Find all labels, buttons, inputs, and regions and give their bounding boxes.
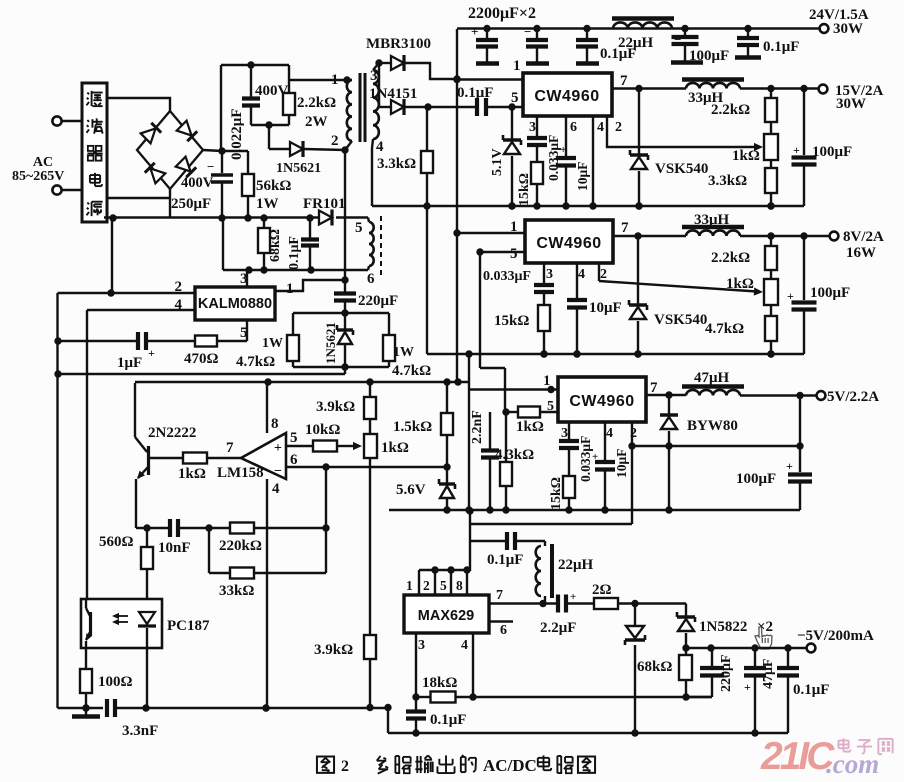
svg-text:5: 5 (440, 578, 447, 593)
svg-text:1W: 1W (256, 196, 279, 212)
-5V output rail (686, 647, 807, 649)
svg-text:10μF: 10μF (614, 449, 629, 478)
wire CW3 pin1 (469, 388, 558, 390)
svg-text:MAX629: MAX629 (418, 608, 474, 624)
svg-text:3.3kΩ: 3.3kΩ (377, 156, 416, 172)
AC input terminal 2 (52, 185, 61, 194)
svg-text:8: 8 (271, 416, 279, 432)
svg-text:2.2kΩ: 2.2kΩ (711, 250, 750, 266)
capacitor 0.1uF MAX filter (470, 540, 507, 542)
svg-text:4.3kΩ: 4.3kΩ (495, 447, 534, 463)
bridge diode D1 (141, 123, 162, 144)
svg-text:MBR3100: MBR3100 (366, 36, 431, 52)
primary negative rail (104, 216, 319, 218)
cursor icon (755, 627, 772, 649)
wire CW2 pin1 (457, 232, 525, 234)
svg-text:22μH: 22μH (558, 557, 594, 573)
wire rail to KALM pin2 node (111, 218, 113, 293)
bottom ground rail with 3.3nF (58, 707, 104, 709)
bridge diode D3 (145, 163, 166, 184)
svg-text:2.2kΩ: 2.2kΩ (711, 102, 750, 118)
svg-text:3.9kΩ: 3.9kΩ (314, 642, 353, 658)
capacitor 2200uF B (533, 25, 540, 32)
svg-text:0.1μF: 0.1μF (430, 712, 466, 728)
svg-text:2.2nF: 2.2nF (470, 410, 485, 444)
svg-text:21IC: 21IC (760, 735, 835, 778)
capacitor 0.1uF aux (309, 218, 311, 238)
svg-text:CW4960: CW4960 (536, 235, 601, 252)
wire pin6 to comp (325, 467, 327, 528)
wire MAX pin6 (489, 620, 513, 622)
resistor 100 (85, 648, 87, 669)
diode 1N5621 (269, 148, 290, 150)
svg-text:560Ω: 560Ω (99, 534, 134, 550)
capacitor 1uF (146, 340, 195, 342)
svg-text:0.1μF: 0.1μF (287, 236, 302, 270)
wire CW2 pin5 comp (480, 251, 525, 253)
svg-text:100μF: 100μF (812, 144, 852, 160)
svg-text:0.1μF: 0.1μF (793, 682, 829, 698)
wire bridge to main cap node (203, 150, 222, 151)
svg-text:0.022μF: 0.022μF (229, 109, 245, 160)
wire CW1 pin1 (457, 78, 523, 80)
wire compensation net (136, 527, 170, 529)
zener 5.6V (446, 467, 448, 484)
svg-text:+: + (471, 24, 478, 39)
svg-text:CW4960: CW4960 (534, 88, 599, 105)
svg-text:5: 5 (290, 430, 298, 446)
svg-text:KALM0880: KALM0880 (198, 296, 272, 312)
svg-text:6: 6 (570, 120, 577, 135)
svg-text:LM158: LM158 (217, 465, 264, 481)
svg-text:8: 8 (456, 578, 463, 593)
pot 1k 15V (764, 134, 778, 160)
wire pin2 column (344, 150, 346, 218)
svg-text:4: 4 (597, 120, 604, 135)
lower ground rail (387, 708, 389, 734)
capacitor 100uF 8V (803, 236, 805, 300)
svg-text:100μF: 100μF (689, 48, 729, 64)
diode VSK540 no.1 (638, 89, 640, 156)
svg-text:4.7kΩ: 4.7kΩ (236, 354, 275, 370)
svg-text:2Ω: 2Ω (592, 582, 612, 598)
svg-text:.com: .com (826, 749, 879, 779)
svg-text:2: 2 (341, 758, 349, 775)
svg-text:−: − (524, 24, 531, 39)
svg-text:4: 4 (461, 638, 468, 653)
8V section ground rail (426, 206, 428, 354)
svg-text:+: + (274, 441, 282, 456)
return wire y374 (58, 373, 346, 375)
transformer aux core dashed (380, 216, 382, 277)
svg-text:1N5621: 1N5621 (323, 322, 338, 364)
svg-text:7: 7 (496, 588, 503, 603)
svg-text:PC187: PC187 (167, 618, 210, 634)
wire 5V output (740, 394, 817, 396)
svg-text:22μH: 22μH (618, 35, 654, 51)
svg-text:47μH: 47μH (694, 370, 730, 386)
zener 5.1V (511, 107, 513, 140)
svg-text:100Ω: 100Ω (98, 674, 133, 690)
svg-text:1kΩ: 1kΩ (726, 276, 754, 292)
wire 15V output (740, 87, 818, 89)
capacitor 100uF 15V (803, 89, 805, 155)
svg-text:+: + (148, 346, 155, 360)
diode VSK540 no.2 (637, 236, 639, 305)
capacitor 47uF output (754, 648, 756, 666)
svg-text:1kΩ: 1kΩ (381, 440, 409, 456)
svg-text:2: 2 (615, 120, 622, 135)
24V output bus (457, 27, 820, 29)
svg-text:30W: 30W (833, 21, 863, 37)
vertical join 469 (468, 354, 470, 510)
svg-text:3.3nF: 3.3nF (122, 723, 158, 739)
svg-text:10kΩ: 10kΩ (305, 422, 340, 438)
svg-text:+: + (592, 451, 598, 463)
svg-text:2W: 2W (305, 114, 328, 130)
5V output terminal (817, 391, 826, 400)
-5V output terminal (807, 644, 816, 653)
resistor 15k CW3 (568, 449, 570, 476)
capacitor 100uF 24V (681, 25, 688, 32)
svg-text:6: 6 (500, 623, 507, 638)
svg-text:400V: 400V (181, 175, 214, 191)
capacitor 0.1uF top (583, 25, 590, 32)
svg-text:AC/DC: AC/DC (483, 756, 537, 775)
resistor 3.3k 15V (770, 160, 772, 168)
svg-text:3: 3 (561, 426, 568, 441)
svg-text:10nF: 10nF (158, 540, 191, 556)
wire 8V output (740, 235, 830, 237)
svg-text:470Ω: 470Ω (184, 351, 219, 367)
resistor 560 (146, 528, 148, 547)
main ground bus (372, 205, 804, 207)
IC CW4960 no.3 (558, 377, 646, 422)
wire filter to bridge top (107, 98, 170, 111)
capacitor 0.1uF output (787, 648, 789, 666)
resistor 3.9k upper (369, 382, 371, 397)
svg-text:0.033μF: 0.033μF (483, 269, 531, 284)
capacitor 2.2nF (489, 412, 491, 449)
resistor 15k CW2 (543, 293, 545, 305)
svg-text:2N2222: 2N2222 (148, 425, 196, 441)
svg-text:100μF: 100μF (810, 285, 850, 301)
svg-text:7: 7 (620, 73, 628, 89)
svg-text:33kΩ: 33kΩ (219, 583, 254, 599)
svg-text:1: 1 (406, 578, 413, 593)
svg-text:0.1μF: 0.1μF (487, 552, 523, 568)
inductor 22uH vertical (544, 541, 546, 546)
resistor 68k (263, 218, 265, 228)
snubber top rail (221, 64, 289, 66)
svg-text:4: 4 (578, 267, 585, 282)
resistor 10k (313, 441, 337, 452)
svg-text:0.1μF: 0.1μF (763, 39, 799, 55)
svg-text:+: + (793, 143, 800, 157)
svg-text:6: 6 (290, 452, 298, 468)
resistor 4.7k 8V (770, 305, 772, 316)
resistor 1k CW3 pin5 (506, 411, 518, 413)
capacitor 10nF (168, 519, 172, 537)
svg-text:1N5822: 1N5822 (699, 619, 747, 635)
svg-text:5.6V: 5.6V (396, 482, 426, 498)
svg-text:1: 1 (543, 373, 551, 389)
resistor 2 ohm (594, 598, 618, 609)
resistor 3.9k lower (369, 458, 371, 635)
svg-text:7: 7 (621, 220, 629, 236)
wire KALM pin5 / Vref (246, 320, 248, 341)
resistor 68k output (685, 648, 687, 655)
EMI filter box 滤波器电源 (82, 83, 107, 222)
bridge rectifier (137, 111, 203, 189)
svg-text:100μF: 100μF (736, 471, 776, 487)
svg-text:2.2μF: 2.2μF (540, 620, 576, 636)
wire snubber bottom (251, 124, 289, 126)
svg-text:1: 1 (331, 72, 339, 88)
resistor 220k (209, 527, 230, 529)
svg-text:2: 2 (331, 133, 339, 149)
svg-text:1: 1 (286, 281, 294, 297)
svg-text:1.5kΩ: 1.5kΩ (393, 419, 432, 435)
diode 1N5822 B (685, 604, 687, 618)
svg-text:8V/2A: 8V/2A (843, 229, 884, 245)
wire LED cathode down (146, 628, 148, 648)
svg-text:3.3kΩ: 3.3kΩ (708, 173, 747, 189)
svg-text:VSK540: VSK540 (655, 161, 708, 177)
resistor 1.5k (446, 382, 448, 413)
resistor 2.2k 2W (288, 65, 290, 93)
svg-text:220kΩ: 220kΩ (219, 538, 262, 554)
resistor 3.3k (426, 107, 428, 151)
aux block bottom rail (223, 269, 368, 271)
IC CW4960 no.1 (523, 73, 612, 116)
left vertical rail (56, 293, 58, 708)
zener 1N5621 shunt group (293, 312, 389, 314)
svg-text:FR101: FR101 (303, 196, 346, 212)
svg-text:47μF: 47μF (761, 659, 776, 690)
svg-text:3: 3 (546, 267, 553, 282)
svg-text:VSK540: VSK540 (654, 312, 707, 328)
svg-text:2: 2 (423, 578, 430, 593)
svg-text:0.033μF: 0.033μF (578, 436, 593, 482)
capacitor 0.1uF MAX gnd (415, 697, 417, 710)
svg-text:5.1V: 5.1V (490, 148, 505, 176)
inductor 33uH no.1 (682, 77, 744, 82)
svg-text:1: 1 (513, 58, 521, 74)
capacitor 2200uF A (483, 25, 490, 32)
5V section ground rail (389, 509, 800, 511)
bridge diode D4 (176, 157, 197, 178)
IC CW4960 no.2 (525, 220, 613, 263)
AC input terminal 1 (52, 116, 61, 125)
svg-text:68kΩ: 68kΩ (268, 229, 283, 262)
svg-text:−: − (207, 159, 214, 174)
diode BYW80 return (668, 446, 670, 510)
svg-text:1kΩ: 1kΩ (516, 419, 544, 435)
wire pin4 to ground bus (371, 148, 373, 206)
wire output sense y446 (632, 445, 800, 447)
svg-text:56kΩ: 56kΩ (256, 178, 291, 194)
svg-text:2: 2 (600, 267, 607, 282)
svg-text:4.7kΩ: 4.7kΩ (705, 321, 744, 337)
ground symbol (85, 708, 87, 715)
capacitor 0.022uF (247, 61, 254, 68)
svg-text:1kΩ: 1kΩ (178, 466, 206, 482)
svg-text:10μF: 10μF (589, 300, 622, 316)
svg-text:2200μF×2: 2200μF×2 (468, 5, 536, 22)
IC KALM0880 (246, 270, 248, 287)
svg-text:15kΩ: 15kΩ (517, 173, 532, 206)
svg-text:1μF: 1μF (117, 355, 142, 371)
svg-text:250μF: 250μF (171, 196, 211, 212)
svg-text:7: 7 (226, 440, 234, 456)
svg-text:1N5621: 1N5621 (276, 161, 321, 176)
8V output terminal (830, 232, 839, 241)
svg-text:85~265V: 85~265V (12, 169, 64, 184)
svg-text:BYW80: BYW80 (687, 418, 738, 434)
optocoupler arrows (114, 615, 128, 617)
transformer T1 core (359, 73, 362, 142)
svg-text:3: 3 (529, 120, 536, 135)
svg-text:+: + (570, 591, 576, 603)
IC MAX629 (404, 595, 489, 633)
diode BYW80 (668, 395, 670, 415)
svg-text:68kΩ: 68kΩ (637, 659, 672, 675)
svg-text:220μF: 220μF (719, 655, 734, 693)
15V output terminal (819, 85, 828, 94)
caption 图2 多路输出的AC/DC电路图 (317, 757, 334, 773)
wire pin1 feed (289, 79, 352, 81)
pot 1k LM158 (364, 434, 377, 458)
capacitor 100uF 5V (799, 446, 801, 472)
svg-text:3.9kΩ: 3.9kΩ (316, 399, 355, 415)
pot 1k 8V (764, 279, 778, 305)
svg-text:15kΩ: 15kΩ (494, 313, 529, 329)
capacitor 220uF (344, 280, 346, 292)
resistor 15k CW1 (536, 146, 538, 162)
svg-text:−: − (274, 464, 282, 479)
svg-text:5V/2.2A: 5V/2.2A (827, 389, 879, 405)
svg-text:3: 3 (418, 638, 425, 653)
wire filter to bridge bottom (107, 197, 170, 199)
diode 1N5822 A (634, 604, 636, 626)
svg-text:+: + (744, 680, 751, 694)
wire feedback to -5V (473, 696, 711, 698)
resistor 33k parallel (208, 528, 210, 573)
svg-text:30W: 30W (836, 96, 866, 112)
wire KALM pin4 to optocoupler (87, 309, 195, 311)
feedback rail y382 (135, 381, 469, 383)
svg-text:+: + (786, 459, 793, 473)
svg-text:+: + (560, 144, 566, 156)
svg-text:6: 6 (367, 271, 375, 287)
svg-text:AC: AC (33, 155, 53, 170)
wire KALM pin1 (275, 280, 345, 291)
svg-text:3: 3 (240, 271, 248, 287)
svg-text:220μF: 220μF (358, 293, 398, 309)
svg-text:7: 7 (650, 380, 658, 396)
svg-text:18kΩ: 18kΩ (422, 675, 457, 691)
wire ground drop 470 (469, 511, 471, 571)
svg-text:5: 5 (510, 246, 518, 262)
svg-text:1N4151: 1N4151 (369, 86, 417, 102)
op-amp LM158 (241, 433, 286, 479)
svg-text:10μF: 10μF (575, 162, 590, 191)
svg-text:15kΩ: 15kΩ (549, 477, 564, 510)
svg-text:5: 5 (355, 220, 363, 236)
resistor 4.3k (505, 412, 507, 462)
capacitor 220uF output (711, 648, 713, 666)
inductor 22uH (612, 16, 674, 21)
aux supply block left wire (222, 218, 224, 270)
resistor 2.2k 8V (770, 236, 772, 246)
svg-text:1W: 1W (393, 345, 414, 360)
resistor 2.2k 15V (770, 89, 772, 99)
svg-text:4.7kΩ: 4.7kΩ (392, 363, 431, 379)
wire CW2 pin7 (613, 235, 686, 237)
svg-text:4: 4 (272, 481, 280, 497)
capacitor 2.2uF (556, 595, 560, 613)
resistor 470 (195, 336, 217, 347)
resistor 56k 1W (247, 196, 249, 218)
svg-text:16W: 16W (846, 245, 876, 261)
wire KALM pin2 (111, 292, 195, 294)
Vin vertical feed (456, 29, 458, 382)
svg-text:4: 4 (606, 426, 613, 441)
bulk capacitor 400V 250uF (221, 151, 223, 173)
wire MAX top pins (419, 569, 470, 571)
wire node151 to 56k (222, 150, 248, 152)
resistor 1k base (150, 457, 183, 459)
24V output terminal (820, 24, 829, 33)
bridge diode D2 (177, 121, 198, 142)
wire CW1 pin7 (612, 87, 686, 89)
svg-text:−5V/200mA: −5V/200mA (797, 628, 874, 644)
svg-text:1kΩ: 1kΩ (732, 148, 760, 164)
svg-text:1W: 1W (262, 336, 283, 351)
wire CW3 pin7 (646, 394, 686, 396)
svg-text:CW4960: CW4960 (569, 393, 634, 410)
capacitor 0.1uF 24V out (744, 25, 751, 32)
optocoupler PC187 (81, 599, 162, 648)
svg-text:2.2kΩ: 2.2kΩ (297, 95, 336, 111)
svg-text:4: 4 (376, 139, 384, 155)
